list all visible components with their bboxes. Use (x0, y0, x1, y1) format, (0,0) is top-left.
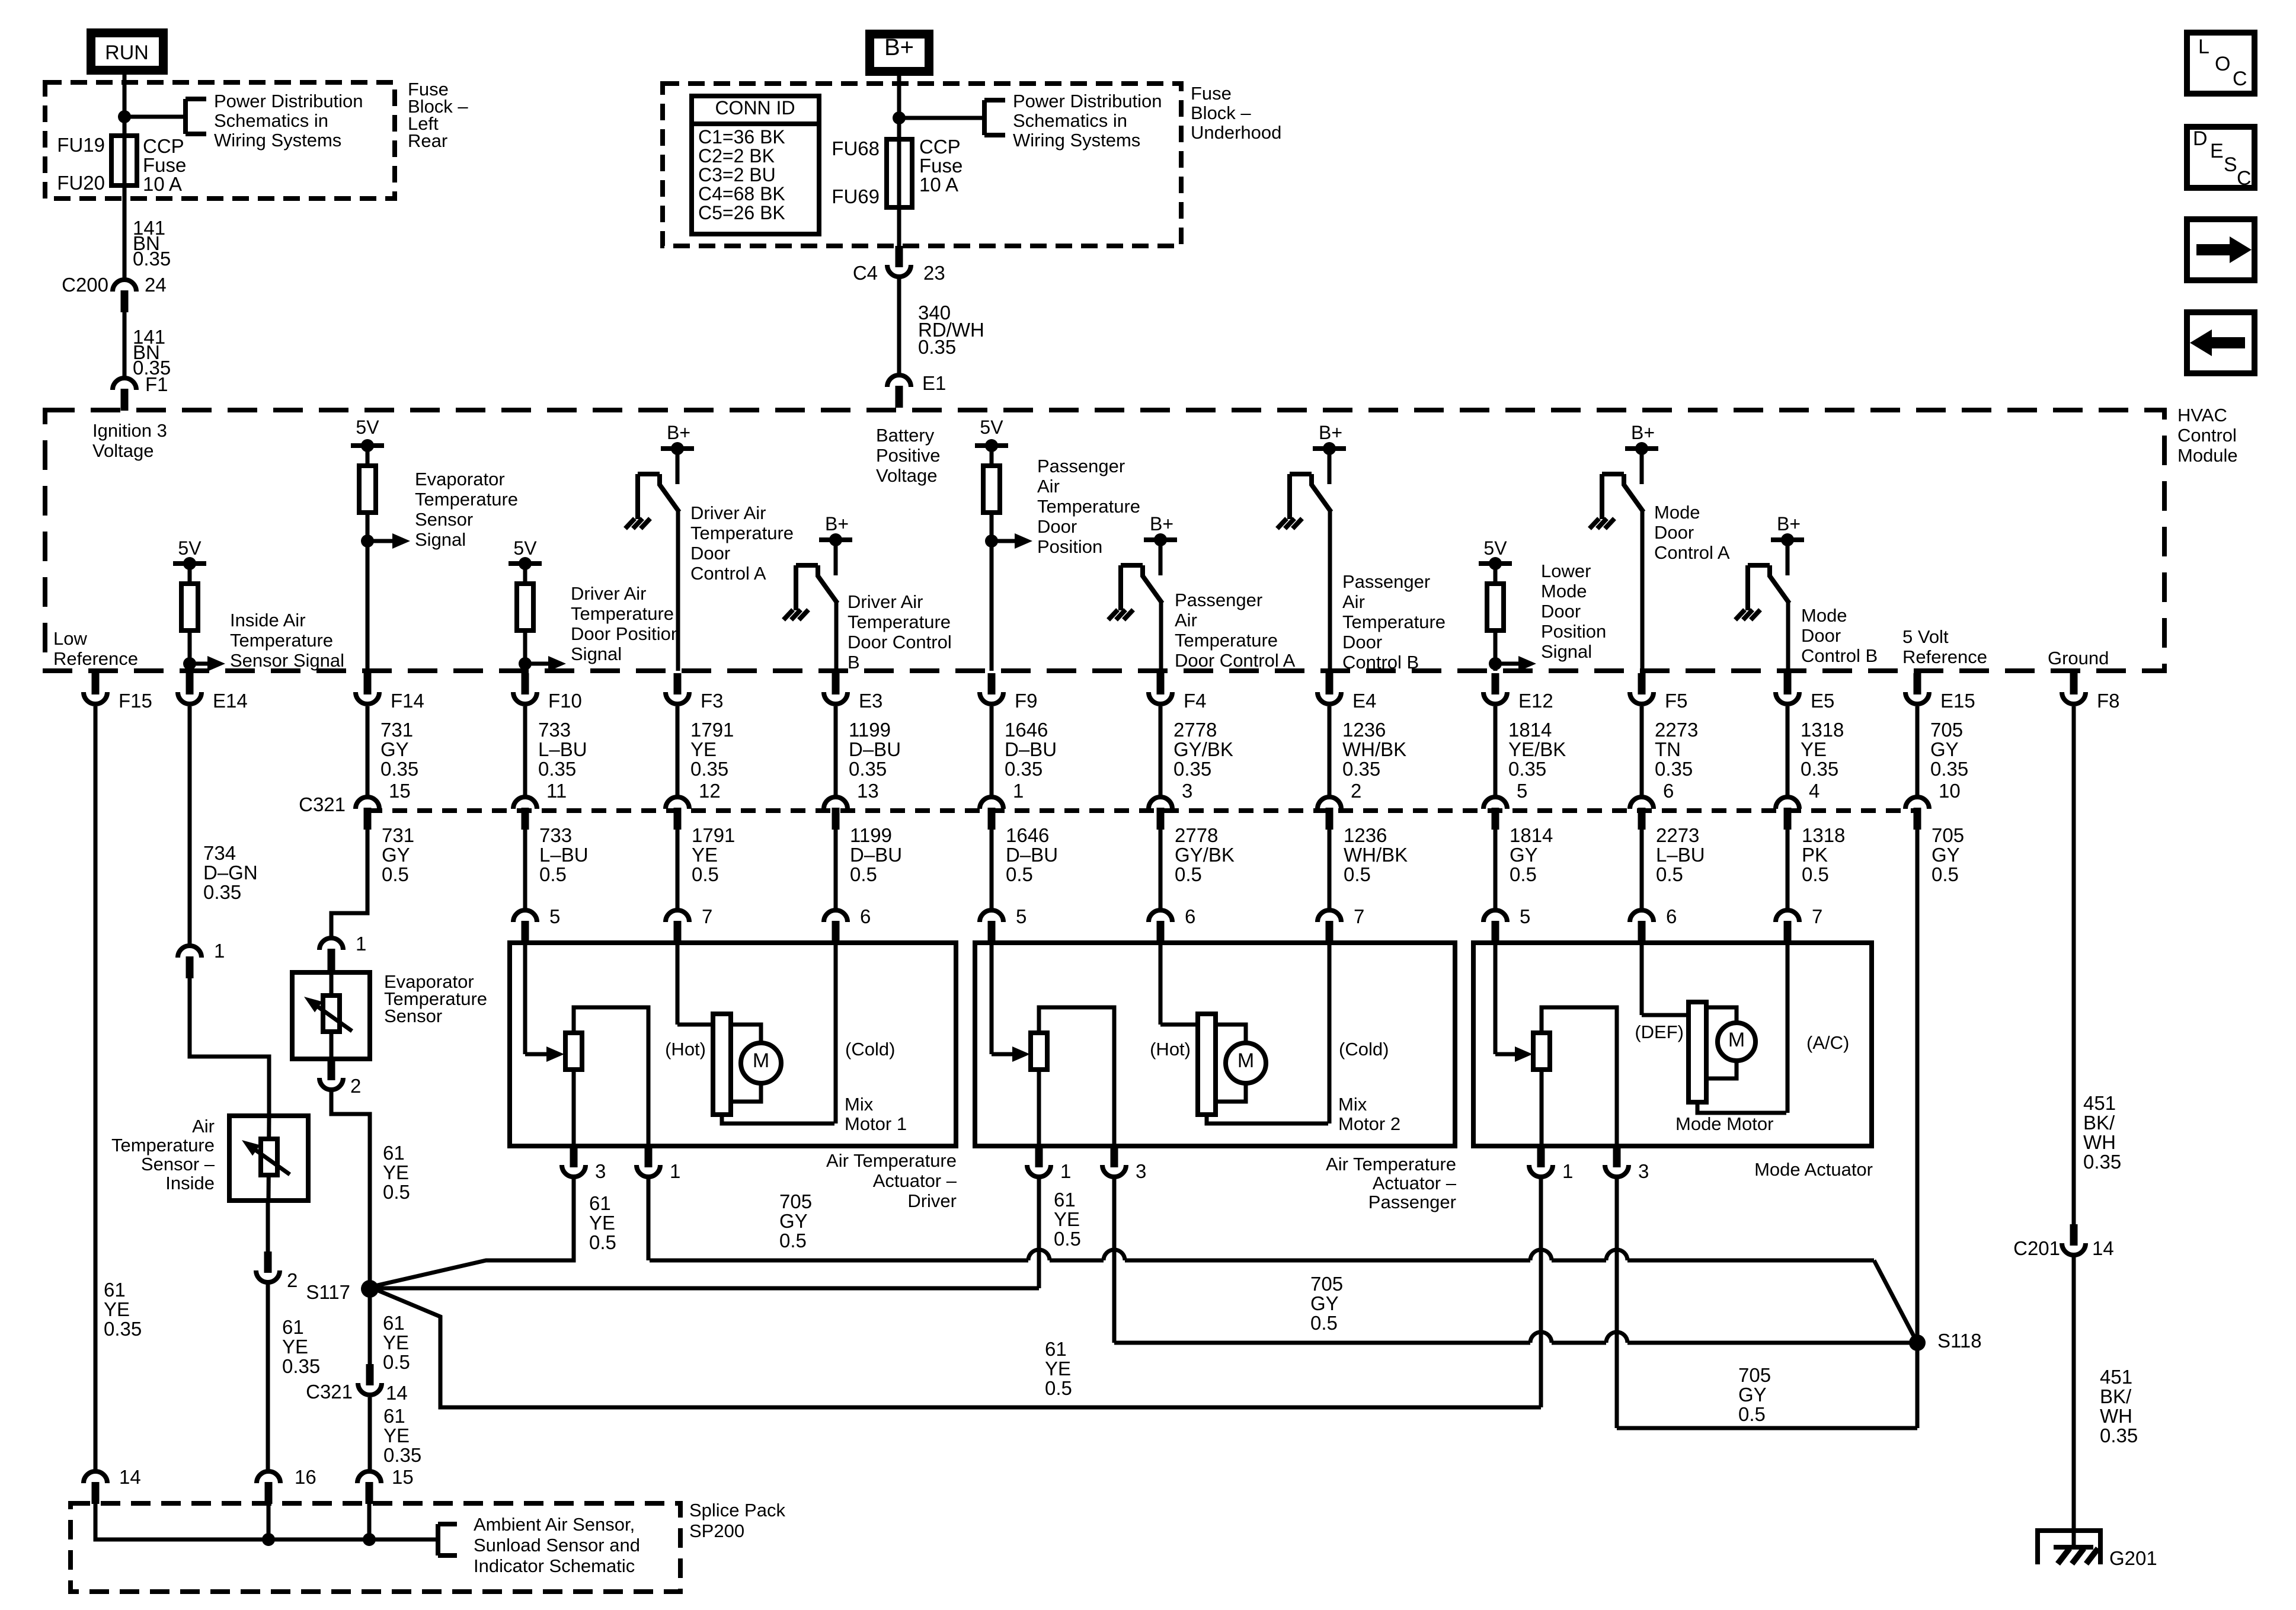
svg-text:YE: YE (1054, 1208, 1080, 1230)
svg-text:0.35: 0.35 (2083, 1151, 2121, 1173)
svg-text:L–BU: L–BU (539, 844, 589, 866)
svg-text:1646: 1646 (1005, 719, 1048, 741)
svg-text:61: 61 (383, 1312, 405, 1334)
svg-text:1: 1 (214, 940, 225, 962)
svg-text:Driver Air: Driver Air (690, 502, 766, 523)
svg-text:F9: F9 (1015, 690, 1038, 712)
svg-text:0.35: 0.35 (690, 758, 728, 780)
svg-text:Signal: Signal (571, 644, 622, 664)
svg-text:L–BU: L–BU (538, 738, 587, 760)
svg-text:1814: 1814 (1510, 824, 1553, 846)
svg-text:1318: 1318 (1801, 719, 1844, 741)
svg-text:2778: 2778 (1175, 824, 1218, 846)
svg-text:0.5: 0.5 (850, 863, 877, 885)
svg-text:61: 61 (383, 1142, 405, 1164)
svg-text:Ignition 3: Ignition 3 (92, 420, 167, 441)
svg-text:E1: E1 (922, 372, 946, 394)
svg-text:705: 705 (1738, 1364, 1771, 1386)
svg-text:D–BU: D–BU (849, 738, 901, 760)
svg-text:705: 705 (779, 1190, 812, 1212)
svg-text:13: 13 (857, 780, 879, 802)
svg-text:YE: YE (383, 1161, 409, 1183)
svg-text:6: 6 (1663, 780, 1674, 802)
svg-text:Air: Air (1175, 610, 1197, 630)
svg-text:0.35: 0.35 (1801, 758, 1838, 780)
svg-text:M: M (753, 1049, 769, 1072)
svg-text:Reference: Reference (53, 648, 138, 669)
svg-text:WH: WH (2083, 1131, 2116, 1153)
svg-text:1: 1 (356, 933, 366, 955)
svg-text:Mode Actuator: Mode Actuator (1754, 1159, 1873, 1180)
svg-text:Mix: Mix (845, 1094, 874, 1115)
svg-text:Splice Pack: Splice Pack (689, 1500, 785, 1521)
svg-text:E14: E14 (213, 690, 248, 712)
svg-text:2: 2 (350, 1075, 361, 1097)
svg-text:734: 734 (203, 842, 236, 864)
svg-text:0.35: 0.35 (1508, 758, 1546, 780)
svg-text:WH/BK: WH/BK (1342, 738, 1406, 760)
svg-text:(Cold): (Cold) (1339, 1039, 1389, 1060)
svg-text:FU20: FU20 (57, 172, 105, 194)
svg-text:Air Temperature: Air Temperature (1326, 1154, 1456, 1174)
svg-text:YE: YE (383, 1331, 409, 1353)
svg-text:0.5: 0.5 (383, 1181, 410, 1203)
svg-text:Sensor: Sensor (415, 509, 473, 530)
svg-text:PK: PK (1802, 844, 1828, 866)
svg-text:Voltage: Voltage (92, 440, 154, 461)
svg-text:0.35: 0.35 (1173, 758, 1211, 780)
svg-text:1: 1 (1013, 780, 1024, 802)
svg-text:YE: YE (282, 1336, 308, 1358)
svg-text:Temperature: Temperature (230, 630, 333, 651)
svg-text:(A/C): (A/C) (1806, 1032, 1849, 1053)
svg-text:0.5: 0.5 (1310, 1312, 1338, 1334)
svg-text:4: 4 (1809, 780, 1819, 802)
svg-text:B+: B+ (884, 34, 914, 60)
svg-text:Ground: Ground (2048, 648, 2109, 668)
svg-text:Passenger: Passenger (1342, 571, 1430, 592)
svg-text:451: 451 (2100, 1366, 2132, 1388)
svg-text:0.35: 0.35 (918, 336, 956, 358)
svg-text:Actuator –: Actuator – (873, 1170, 957, 1191)
svg-text:Door: Door (1037, 516, 1077, 537)
svg-text:C: C (2237, 167, 2252, 190)
svg-text:C3=2 BU: C3=2 BU (698, 164, 776, 185)
svg-text:Low: Low (53, 628, 87, 649)
svg-text:23: 23 (923, 262, 945, 284)
svg-text:Temperature: Temperature (111, 1135, 215, 1156)
svg-text:Battery: Battery (876, 425, 935, 446)
svg-text:GY: GY (1932, 844, 1960, 866)
svg-text:C4: C4 (853, 262, 878, 284)
svg-text:0.35: 0.35 (1930, 758, 1968, 780)
svg-text:Door Position: Door Position (571, 623, 681, 644)
svg-text:(Hot): (Hot) (665, 1039, 706, 1060)
svg-text:16: 16 (295, 1466, 316, 1488)
svg-text:E4: E4 (1352, 690, 1376, 712)
svg-text:1: 1 (1060, 1160, 1071, 1182)
svg-text:YE: YE (383, 1425, 410, 1446)
svg-text:F14: F14 (391, 690, 424, 712)
svg-text:451: 451 (2083, 1092, 2116, 1114)
svg-text:Signal: Signal (1541, 641, 1592, 662)
svg-text:Reference: Reference (1902, 646, 1987, 667)
svg-text:M: M (1237, 1049, 1254, 1072)
svg-text:5V: 5V (178, 537, 202, 559)
svg-text:2273: 2273 (1656, 824, 1699, 846)
svg-text:0.5: 0.5 (779, 1230, 807, 1251)
svg-text:C5=26 BK: C5=26 BK (698, 202, 785, 223)
svg-text:Mix: Mix (1338, 1094, 1367, 1115)
svg-text:0.5: 0.5 (589, 1231, 616, 1253)
svg-text:Rear: Rear (408, 130, 447, 151)
svg-text:YE: YE (692, 844, 718, 866)
svg-text:705: 705 (1932, 824, 1964, 846)
svg-text:10: 10 (1939, 780, 1961, 802)
svg-text:Passenger: Passenger (1368, 1192, 1456, 1212)
svg-text:E12: E12 (1518, 690, 1553, 712)
svg-text:E3: E3 (859, 690, 882, 712)
svg-text:1199: 1199 (850, 824, 892, 846)
svg-text:Positive: Positive (876, 445, 941, 466)
svg-text:14: 14 (386, 1382, 408, 1404)
svg-text:L–BU: L–BU (1656, 844, 1705, 866)
svg-text:0.5: 0.5 (1656, 863, 1683, 885)
svg-text:C321: C321 (299, 793, 346, 815)
svg-text:24: 24 (145, 274, 167, 296)
svg-text:Motor 2: Motor 2 (1338, 1113, 1400, 1134)
svg-text:61: 61 (282, 1316, 304, 1338)
svg-text:GY: GY (1510, 844, 1538, 866)
svg-text:733: 733 (539, 824, 572, 846)
svg-text:0.35: 0.35 (104, 1318, 142, 1340)
svg-text:12: 12 (699, 780, 721, 802)
svg-text:Indicator Schematic: Indicator Schematic (474, 1555, 635, 1576)
svg-text:1199: 1199 (849, 719, 891, 741)
svg-text:M: M (1728, 1029, 1745, 1051)
svg-text:Door: Door (690, 543, 730, 564)
svg-text:BK/: BK/ (2100, 1385, 2132, 1407)
svg-text:Mode: Mode (1654, 502, 1700, 523)
svg-text:Wiring Systems: Wiring Systems (1013, 130, 1140, 151)
svg-text:5: 5 (549, 905, 560, 927)
svg-text:Temperature: Temperature (1175, 630, 1278, 651)
svg-text:Underhood: Underhood (1191, 122, 1281, 143)
svg-text:B+: B+ (1150, 513, 1173, 534)
svg-text:Temperature: Temperature (571, 603, 674, 624)
svg-text:D–GN: D–GN (203, 862, 258, 884)
svg-text:Sensor: Sensor (384, 1006, 442, 1026)
svg-text:61: 61 (1045, 1338, 1067, 1360)
svg-text:Temperature: Temperature (1342, 612, 1446, 632)
svg-text:Fuse: Fuse (1191, 83, 1232, 104)
svg-text:0.5: 0.5 (1802, 863, 1829, 885)
svg-text:D: D (2193, 127, 2208, 150)
svg-text:F3: F3 (701, 690, 724, 712)
svg-text:Driver: Driver (907, 1190, 957, 1211)
svg-text:5: 5 (1520, 905, 1530, 927)
svg-text:CONN ID: CONN ID (715, 97, 795, 119)
svg-text:Position: Position (1541, 621, 1606, 642)
svg-text:D–BU: D–BU (850, 844, 902, 866)
svg-text:5 Volt: 5 Volt (1902, 626, 1949, 647)
svg-text:Door: Door (1801, 625, 1841, 646)
svg-text:1814: 1814 (1508, 719, 1552, 741)
svg-text:6: 6 (1185, 905, 1195, 927)
svg-text:Lower: Lower (1541, 561, 1591, 581)
svg-text:Schematics in: Schematics in (1013, 110, 1127, 131)
svg-text:Door: Door (1342, 632, 1382, 652)
svg-text:TN: TN (1655, 738, 1681, 760)
svg-text:B+: B+ (1777, 513, 1801, 534)
svg-text:2: 2 (1351, 780, 1361, 802)
svg-text:3: 3 (1638, 1160, 1649, 1182)
svg-text:GY/BK: GY/BK (1173, 738, 1233, 760)
svg-text:Sensor –: Sensor – (141, 1154, 215, 1174)
svg-text:10 A: 10 A (919, 174, 958, 196)
svg-text:Mode Motor: Mode Motor (1675, 1113, 1773, 1134)
svg-text:Air: Air (1342, 591, 1365, 612)
svg-text:1236: 1236 (1344, 824, 1387, 846)
svg-text:Air Temperature: Air Temperature (826, 1150, 957, 1171)
svg-text:S117: S117 (306, 1281, 350, 1303)
svg-text:Control B: Control B (1801, 645, 1878, 666)
svg-text:Power Distribution: Power Distribution (214, 91, 363, 111)
svg-text:6: 6 (1666, 905, 1677, 927)
svg-text:F5: F5 (1665, 690, 1688, 712)
svg-text:Evaporator: Evaporator (415, 469, 505, 489)
svg-text:731: 731 (382, 824, 414, 846)
svg-text:SP200: SP200 (689, 1521, 744, 1541)
svg-text:Passenger: Passenger (1175, 590, 1262, 610)
svg-text:15: 15 (389, 780, 411, 802)
svg-text:Power Distribution: Power Distribution (1013, 91, 1162, 111)
svg-text:YE: YE (104, 1298, 130, 1320)
svg-text:B+: B+ (1631, 422, 1655, 443)
svg-text:Voltage: Voltage (876, 465, 937, 486)
svg-text:705: 705 (1930, 719, 1963, 741)
svg-text:705: 705 (1310, 1273, 1343, 1295)
svg-text:E15: E15 (1940, 690, 1975, 712)
svg-text:0.5: 0.5 (1175, 863, 1202, 885)
svg-text:1: 1 (670, 1160, 680, 1182)
svg-text:0.5: 0.5 (1344, 863, 1371, 885)
svg-text:0.5: 0.5 (1006, 863, 1033, 885)
svg-text:10 A: 10 A (143, 173, 182, 195)
svg-text:Control: Control (2177, 425, 2237, 446)
svg-text:F4: F4 (1184, 690, 1207, 712)
svg-text:0.5: 0.5 (1738, 1403, 1766, 1425)
svg-text:Module: Module (2177, 445, 2238, 466)
svg-text:Mode: Mode (1801, 605, 1847, 626)
svg-text:0.5: 0.5 (1054, 1228, 1081, 1250)
svg-text:Door Control: Door Control (848, 632, 952, 652)
svg-text:0.5: 0.5 (1045, 1377, 1072, 1399)
svg-text:GY/BK: GY/BK (1175, 844, 1235, 866)
svg-text:C2=2 BK: C2=2 BK (698, 145, 775, 167)
svg-text:D–BU: D–BU (1005, 738, 1057, 760)
svg-text:2: 2 (287, 1269, 298, 1291)
svg-text:FU19: FU19 (57, 134, 105, 156)
svg-text:Schematics in: Schematics in (214, 110, 328, 131)
svg-text:0.35: 0.35 (1005, 758, 1043, 780)
svg-text:(Cold): (Cold) (845, 1039, 895, 1060)
svg-text:3: 3 (1136, 1160, 1146, 1182)
svg-text:O: O (2215, 53, 2230, 75)
svg-text:5V: 5V (1483, 537, 1507, 559)
svg-text:YE: YE (1045, 1358, 1071, 1379)
svg-text:Motor 1: Motor 1 (845, 1113, 907, 1134)
svg-text:B+: B+ (667, 422, 690, 443)
svg-text:Control A: Control A (1654, 542, 1730, 563)
svg-text:Block –: Block – (1191, 103, 1251, 123)
svg-text:(DEF): (DEF) (1635, 1022, 1684, 1042)
svg-text:YE: YE (589, 1212, 615, 1234)
svg-text:C: C (2233, 68, 2247, 90)
svg-text:Air: Air (1037, 476, 1060, 497)
svg-text:C201: C201 (2013, 1237, 2060, 1259)
svg-text:BK/: BK/ (2083, 1112, 2115, 1134)
svg-text:5: 5 (1016, 905, 1027, 927)
svg-text:731: 731 (380, 719, 413, 741)
svg-text:7: 7 (1354, 905, 1364, 927)
svg-text:B: B (848, 652, 860, 673)
svg-text:1236: 1236 (1342, 719, 1386, 741)
svg-text:14: 14 (2092, 1237, 2114, 1259)
svg-text:0.35: 0.35 (133, 248, 171, 270)
svg-text:Temperature: Temperature (1037, 496, 1140, 517)
svg-text:HVAC: HVAC (2177, 405, 2227, 425)
svg-text:Ambient Air Sensor,: Ambient Air Sensor, (474, 1514, 635, 1535)
svg-text:Temperature: Temperature (415, 489, 518, 510)
svg-text:0.5: 0.5 (1510, 863, 1537, 885)
svg-text:Air: Air (192, 1116, 215, 1137)
svg-text:Temperature: Temperature (848, 612, 951, 632)
svg-text:C200: C200 (62, 274, 108, 296)
svg-text:1646: 1646 (1006, 824, 1049, 846)
svg-text:0.35: 0.35 (380, 758, 418, 780)
svg-text:GY: GY (1738, 1384, 1767, 1406)
svg-text:14: 14 (119, 1466, 141, 1488)
svg-text:Temperature: Temperature (690, 523, 794, 543)
svg-text:0.35: 0.35 (383, 1444, 421, 1466)
svg-text:S: S (2224, 153, 2237, 176)
svg-text:E: E (2210, 140, 2224, 162)
svg-text:0.5: 0.5 (539, 863, 567, 885)
svg-text:0.35: 0.35 (203, 881, 241, 903)
svg-text:11: 11 (546, 780, 567, 802)
svg-text:5V: 5V (356, 417, 379, 438)
svg-text:Inside: Inside (165, 1173, 215, 1193)
svg-text:0.35: 0.35 (1655, 758, 1693, 780)
svg-text:(Hot): (Hot) (1150, 1039, 1191, 1060)
svg-text:2778: 2778 (1173, 719, 1217, 741)
svg-text:YE: YE (690, 738, 717, 760)
svg-text:C321: C321 (306, 1381, 353, 1403)
svg-text:GY: GY (1310, 1292, 1339, 1314)
svg-text:F1: F1 (145, 373, 168, 395)
svg-text:G201: G201 (2109, 1547, 2157, 1569)
svg-text:GY: GY (779, 1210, 808, 1232)
svg-text:7: 7 (702, 905, 712, 927)
svg-text:1791: 1791 (690, 719, 734, 741)
svg-text:Sunload Sensor and: Sunload Sensor and (474, 1535, 640, 1555)
svg-text:Control B: Control B (1342, 652, 1419, 673)
svg-text:0.5: 0.5 (382, 863, 409, 885)
svg-text:0.35: 0.35 (1342, 758, 1380, 780)
svg-text:5: 5 (1517, 780, 1527, 802)
svg-text:YE: YE (1801, 738, 1827, 760)
svg-text:Door Control A: Door Control A (1175, 650, 1296, 671)
svg-text:61: 61 (1054, 1189, 1076, 1211)
svg-text:Door: Door (1541, 601, 1581, 622)
svg-text:F8: F8 (2097, 690, 2120, 712)
svg-text:Door: Door (1654, 522, 1694, 543)
svg-text:1318: 1318 (1802, 824, 1845, 846)
svg-text:0.5: 0.5 (383, 1351, 410, 1373)
svg-text:Actuator –: Actuator – (1373, 1173, 1457, 1193)
svg-text:E5: E5 (1811, 690, 1834, 712)
svg-text:2273: 2273 (1655, 719, 1698, 741)
svg-text:0.5: 0.5 (1932, 863, 1959, 885)
svg-text:GY: GY (382, 844, 410, 866)
svg-text:0.5: 0.5 (692, 863, 719, 885)
svg-text:C4=68 BK: C4=68 BK (698, 183, 785, 204)
svg-text:7: 7 (1812, 905, 1822, 927)
svg-text:Control A: Control A (690, 563, 766, 584)
svg-text:Signal: Signal (415, 529, 466, 550)
svg-text:Position: Position (1037, 536, 1102, 557)
svg-text:0.35: 0.35 (2100, 1425, 2138, 1446)
svg-text:GY: GY (1930, 738, 1959, 760)
svg-text:1: 1 (1562, 1160, 1573, 1182)
svg-text:15: 15 (392, 1466, 414, 1488)
svg-text:YE/BK: YE/BK (1508, 738, 1566, 760)
svg-text:5V: 5V (980, 417, 1003, 438)
svg-text:61: 61 (104, 1279, 126, 1301)
svg-text:3: 3 (595, 1160, 606, 1182)
svg-text:S118: S118 (1937, 1330, 1982, 1352)
svg-text:0.35: 0.35 (849, 758, 887, 780)
svg-text:FU69: FU69 (832, 185, 880, 207)
svg-text:FU68: FU68 (832, 137, 880, 159)
svg-text:5V: 5V (513, 537, 537, 559)
svg-text:Passenger: Passenger (1037, 456, 1125, 476)
svg-text:B+: B+ (825, 513, 849, 534)
svg-text:WH: WH (2100, 1405, 2132, 1427)
svg-text:Driver Air: Driver Air (571, 583, 646, 604)
svg-text:Mode: Mode (1541, 581, 1587, 601)
svg-text:C1=36 BK: C1=36 BK (698, 126, 785, 148)
svg-text:F15: F15 (119, 690, 152, 712)
svg-text:RUN: RUN (105, 41, 149, 64)
svg-text:3: 3 (1182, 780, 1192, 802)
svg-text:Wiring Systems: Wiring Systems (214, 130, 341, 151)
svg-text:L: L (2198, 36, 2209, 58)
svg-text:0.35: 0.35 (282, 1355, 320, 1377)
svg-text:F10: F10 (548, 690, 582, 712)
svg-text:Driver Air: Driver Air (848, 591, 923, 612)
svg-text:Inside Air: Inside Air (230, 610, 306, 630)
svg-text:D–BU: D–BU (1006, 844, 1058, 866)
svg-text:6: 6 (860, 905, 871, 927)
svg-text:0.35: 0.35 (538, 758, 576, 780)
svg-text:1791: 1791 (692, 824, 735, 846)
svg-text:733: 733 (538, 719, 571, 741)
svg-text:B+: B+ (1319, 422, 1342, 443)
svg-text:GY: GY (380, 738, 409, 760)
svg-text:61: 61 (383, 1405, 405, 1427)
